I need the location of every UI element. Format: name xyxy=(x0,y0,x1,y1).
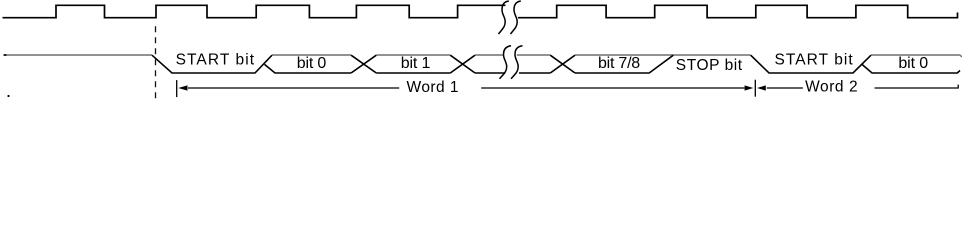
svg-text:START bit: START bit xyxy=(176,51,255,68)
svg-text:bit 0: bit 0 xyxy=(297,55,327,72)
svg-text:Word 1: Word 1 xyxy=(407,79,459,96)
svg-text:bit 1: bit 1 xyxy=(401,55,431,72)
svg-text:START bit: START bit xyxy=(775,52,854,69)
svg-text:bit 7/8: bit 7/8 xyxy=(598,55,640,72)
svg-text:STOP bit: STOP bit xyxy=(676,57,743,74)
svg-text:bit 0: bit 0 xyxy=(898,55,928,72)
svg-text:Word 2: Word 2 xyxy=(805,79,858,96)
